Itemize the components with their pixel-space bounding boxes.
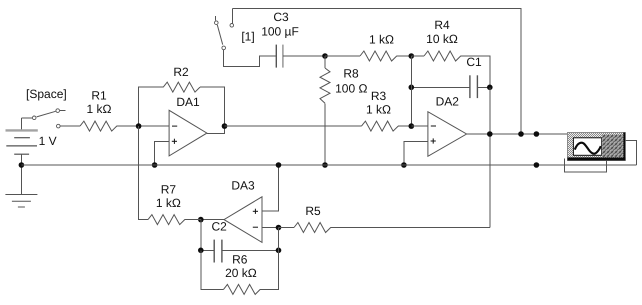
node top feedback (518, 131, 524, 137)
svg-text:[Space]: [Space] (26, 87, 67, 101)
svg-text:1 kΩ: 1 kΩ (87, 102, 112, 116)
node DA3 plus on rail (276, 162, 282, 168)
svg-text:DA2: DA2 (436, 95, 460, 109)
capacitor C2 (201, 220, 279, 263)
wire DA3 minus input (262, 227, 279, 229)
svg-text:C2: C2 (212, 220, 228, 234)
svg-text:C1: C1 (466, 55, 482, 69)
svg-text:R2: R2 (173, 65, 189, 79)
svg-text:R5: R5 (305, 204, 321, 218)
wire top feedback (232, 9, 521, 135)
node DA2 output / R5 (487, 131, 493, 137)
ground (5, 165, 37, 207)
node R3/DA2 input (409, 123, 415, 129)
svg-text:1 kΩ: 1 kΩ (156, 196, 181, 210)
resistor R5 (279, 204, 490, 233)
wire DA3 output (201, 219, 224, 221)
svg-text:100 Ω: 100 Ω (335, 81, 367, 95)
node DA1 minus (136, 123, 142, 129)
svg-text:R6: R6 (232, 253, 248, 267)
node 1k/R4 (409, 53, 415, 59)
svg-text:1 V: 1 V (39, 134, 57, 148)
resistor R2 (139, 65, 225, 126)
wire DA2 minus input (411, 125, 428, 127)
node DA1 output (222, 123, 228, 129)
svg-text:R7: R7 (161, 183, 177, 197)
node R8 on rail (322, 162, 328, 168)
op-amp DA3 (224, 179, 262, 243)
node C2 left (198, 248, 204, 254)
svg-text:[1]: [1] (241, 29, 254, 43)
wire scope bottom loop (565, 159, 607, 173)
battery 1 V (6, 118, 57, 165)
wire DA1 minus input (139, 125, 170, 127)
svg-text:DA1: DA1 (176, 95, 200, 109)
node C1 right (487, 85, 493, 91)
resistor R7 1 kOhm (139, 126, 201, 225)
capacitor C1 (411, 55, 490, 98)
resistor R4 10 kOhm (411, 18, 490, 87)
svg-text:1 kΩ: 1 kΩ (369, 32, 394, 46)
node battery/ground junction (19, 162, 25, 168)
svg-text:R8: R8 (343, 66, 359, 80)
wire DA2 plus input to rail (404, 141, 428, 165)
resistor R1 1 kOhm (61, 88, 139, 131)
node C2 right (276, 248, 282, 254)
wire ground rail (21, 164, 636, 166)
resistor R6 20 kOhm (201, 250, 279, 294)
wire DA1 plus input to rail (155, 141, 170, 165)
connector dot on rail (534, 162, 540, 168)
op-amp DA1 (169, 95, 207, 156)
node DA2 plus on rail (401, 162, 407, 168)
wire DA2 output to scope (467, 133, 568, 135)
wire vertical 1k/R4 node down to R3 line (410, 56, 412, 126)
svg-text:10 kΩ: 10 kΩ (426, 32, 458, 46)
svg-text:C3: C3 (273, 10, 289, 24)
node DA1 plus on rail (152, 162, 158, 168)
node C3/R8 (322, 53, 328, 59)
switch S1 [Space] (21, 87, 66, 128)
svg-text:100 µF: 100 µF (261, 25, 299, 39)
svg-text:R3: R3 (371, 89, 387, 103)
capacitor C3 100 uF (electrolytic) (261, 10, 299, 68)
node C1 left (409, 85, 415, 91)
wire switch to C3 (224, 50, 277, 66)
wire C1/R5 vertical (489, 87, 491, 227)
connector dot on output wire (534, 131, 540, 137)
svg-text:R1: R1 (91, 88, 107, 102)
svg-text:DA3: DA3 (231, 179, 255, 193)
svg-text:20 kΩ: 20 kΩ (225, 266, 257, 280)
resistor 1 kOhm (top) (325, 32, 411, 61)
switch S2 [1] (215, 9, 255, 50)
wire DA3 plus input to rail (262, 165, 279, 211)
resistor R8 100 Ohm (320, 56, 367, 165)
wire DA1 output jog (207, 126, 225, 133)
node DA3 output (198, 217, 204, 223)
oscilloscope XSC1 (568, 133, 626, 161)
op-amp DA2 (428, 95, 467, 157)
wire scope right terminal to rail (625, 141, 636, 165)
node DA3 minus (276, 225, 282, 231)
wire DA3 minus down to C2 (278, 228, 280, 251)
svg-text:R4: R4 (434, 18, 450, 32)
wire C3 to node (283, 55, 325, 57)
resistor R3 1 kOhm (225, 89, 412, 131)
svg-text:1 kΩ: 1 kΩ (366, 102, 391, 116)
